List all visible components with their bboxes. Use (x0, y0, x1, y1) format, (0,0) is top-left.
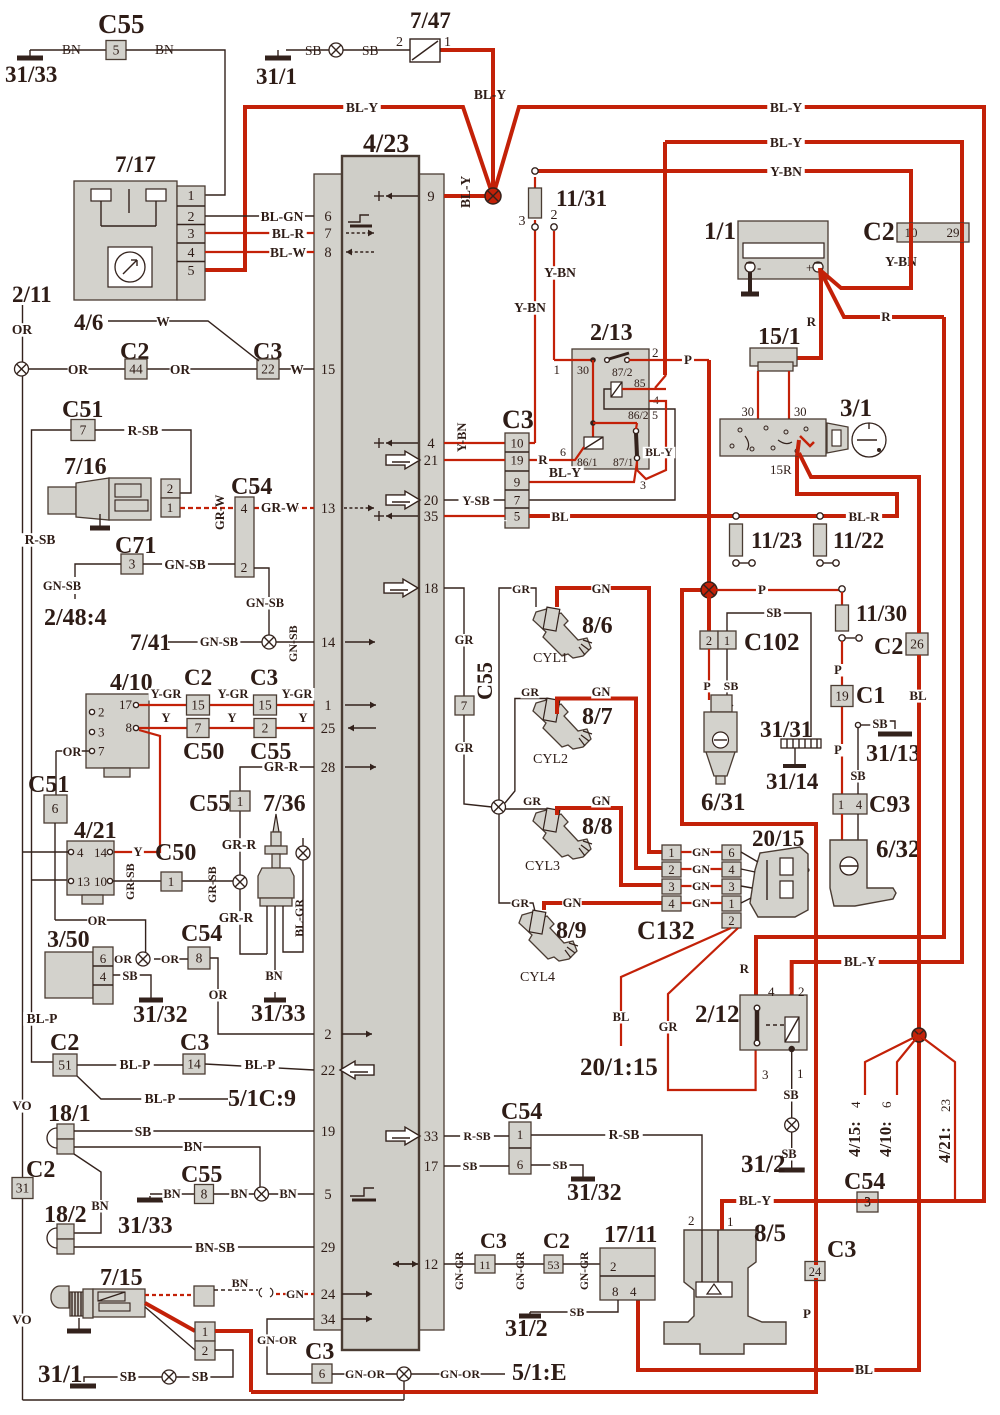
svg-text:86/2: 86/2 (628, 410, 649, 422)
svg-text:GN: GN (692, 879, 710, 893)
svg-text:C3: C3 (305, 1339, 334, 1365)
svg-text:8/8: 8/8 (582, 814, 613, 840)
svg-text:Y: Y (227, 711, 236, 725)
svg-text:GN: GN (592, 582, 611, 596)
svg-text:GN-OR: GN-OR (440, 1367, 480, 1381)
svg-text:C2: C2 (543, 1228, 570, 1253)
svg-text:4/10:: 4/10: (876, 1121, 895, 1157)
svg-text:23: 23 (938, 1099, 953, 1112)
svg-text:1: 1 (188, 189, 195, 204)
svg-text:3/50: 3/50 (47, 927, 90, 953)
svg-text:14: 14 (187, 1057, 201, 1072)
svg-text:BL: BL (855, 1362, 873, 1377)
svg-text:15/1: 15/1 (758, 324, 801, 350)
svg-text:2: 2 (688, 1213, 695, 1228)
svg-text:1: 1 (728, 897, 734, 911)
svg-text:1: 1 (797, 1066, 804, 1081)
svg-text:GN-OR: GN-OR (345, 1367, 385, 1381)
svg-text:SB: SB (192, 1369, 209, 1384)
svg-text:GR: GR (511, 896, 529, 910)
svg-text:GN-GR: GN-GR (579, 1251, 591, 1290)
svg-text:BN: BN (62, 42, 81, 57)
svg-text:SB: SB (463, 1159, 478, 1173)
svg-text:GN-GR: GN-GR (515, 1251, 527, 1290)
svg-text:R-SB: R-SB (463, 1129, 490, 1143)
svg-text:6: 6 (517, 1157, 524, 1172)
svg-text:Y-GR: Y-GR (282, 687, 314, 701)
svg-text:33: 33 (424, 1129, 439, 1145)
svg-text:BN: BN (91, 1199, 108, 1213)
svg-text:30: 30 (577, 363, 589, 377)
svg-text:15: 15 (321, 362, 336, 378)
svg-text:8/6: 8/6 (582, 613, 613, 639)
svg-text:GR-SB: GR-SB (123, 863, 137, 900)
svg-text:4: 4 (728, 863, 735, 877)
svg-text:2/12: 2/12 (695, 1001, 739, 1028)
svg-text:8/5: 8/5 (754, 1220, 786, 1247)
svg-text:22: 22 (261, 362, 275, 377)
svg-text:7/47: 7/47 (410, 8, 451, 33)
svg-text:1: 1 (838, 798, 844, 812)
svg-text:2: 2 (241, 560, 248, 575)
svg-text:11/30: 11/30 (856, 601, 907, 626)
svg-text:9: 9 (427, 189, 434, 205)
svg-text:C2: C2 (863, 217, 895, 246)
svg-text:1: 1 (724, 634, 730, 648)
svg-text:W: W (290, 362, 304, 377)
svg-text:W: W (156, 314, 170, 329)
svg-text:BL-GN: BL-GN (261, 209, 304, 224)
svg-text:19: 19 (321, 1124, 336, 1140)
svg-text:17: 17 (424, 1159, 439, 1175)
svg-text:SB: SB (362, 43, 379, 58)
svg-text:87/1: 87/1 (613, 457, 634, 469)
svg-text:GN-OR: GN-OR (257, 1333, 297, 1347)
svg-text:GN: GN (692, 896, 710, 910)
svg-text:CYL4: CYL4 (520, 970, 555, 985)
svg-text:2/13: 2/13 (590, 320, 633, 346)
svg-text:2/11: 2/11 (12, 282, 52, 307)
svg-text:BL-P: BL-P (120, 1057, 151, 1072)
svg-text:31/33: 31/33 (118, 1213, 173, 1239)
svg-text:8: 8 (126, 720, 133, 735)
svg-text:BL-Y: BL-Y (549, 465, 582, 480)
svg-text:1: 1 (727, 1214, 734, 1229)
svg-text:5: 5 (324, 1187, 331, 1203)
svg-text:34: 34 (321, 1312, 336, 1328)
svg-text:31/2: 31/2 (741, 1151, 785, 1178)
svg-text:BN: BN (163, 1187, 180, 1201)
svg-text:BN-SB: BN-SB (195, 1240, 235, 1255)
svg-text:31/31: 31/31 (760, 717, 812, 742)
svg-text:GN-SB: GN-SB (164, 557, 205, 572)
svg-text:1: 1 (168, 874, 175, 889)
svg-text:OR: OR (209, 988, 229, 1002)
svg-text:BL-R: BL-R (272, 226, 305, 241)
svg-text:C50: C50 (155, 840, 196, 866)
svg-text:GR-W: GR-W (261, 500, 300, 515)
svg-text:BL-Y: BL-Y (770, 135, 803, 150)
svg-text:8/7: 8/7 (582, 704, 613, 730)
svg-text:6: 6 (728, 846, 734, 860)
svg-text:6: 6 (52, 801, 59, 816)
svg-text:BN: BN (232, 1276, 249, 1290)
svg-text:BN: BN (230, 1187, 247, 1201)
svg-text:14: 14 (94, 845, 108, 860)
svg-text:GN: GN (592, 685, 611, 699)
svg-text:2: 2 (652, 345, 659, 360)
svg-text:C55: C55 (189, 791, 230, 817)
svg-text:C93: C93 (869, 792, 910, 818)
svg-text:C3: C3 (502, 405, 534, 434)
svg-text:CYL1: CYL1 (533, 651, 568, 666)
svg-text:4/6: 4/6 (74, 310, 103, 335)
svg-text:C1: C1 (856, 683, 885, 709)
svg-text:8: 8 (196, 951, 203, 966)
svg-text:6: 6 (324, 209, 331, 225)
svg-text:SB: SB (872, 717, 887, 731)
svg-text:2: 2 (668, 863, 674, 877)
svg-text:8: 8 (201, 1187, 208, 1202)
svg-text:12: 12 (424, 1257, 439, 1273)
svg-text:7: 7 (324, 226, 331, 242)
svg-text:BL-P: BL-P (245, 1057, 276, 1072)
svg-text:Y: Y (298, 711, 307, 725)
svg-text:BL: BL (551, 509, 569, 524)
svg-text:BL-Y: BL-Y (739, 1193, 772, 1208)
svg-text:6/31: 6/31 (701, 789, 745, 816)
svg-text:SB: SB (850, 769, 865, 783)
svg-text:9: 9 (514, 475, 521, 490)
svg-text:2: 2 (167, 481, 174, 496)
svg-text:C54: C54 (231, 474, 272, 500)
svg-text:10: 10 (94, 874, 107, 889)
svg-text:BL: BL (613, 1010, 630, 1024)
svg-text:5/1C:9: 5/1C:9 (228, 1086, 296, 1112)
svg-text:17: 17 (119, 697, 133, 712)
svg-text:SB: SB (724, 679, 739, 693)
svg-text:P: P (684, 352, 692, 367)
svg-text:GN-SB: GN-SB (246, 596, 284, 610)
svg-text:4: 4 (856, 798, 863, 812)
svg-text:C54: C54 (844, 1169, 885, 1195)
svg-text:SB: SB (553, 1158, 568, 1172)
svg-text:GR-R: GR-R (219, 910, 254, 925)
svg-text:4: 4 (188, 246, 195, 261)
svg-text:31: 31 (16, 1181, 30, 1196)
svg-text:C132: C132 (637, 916, 695, 945)
svg-text:7: 7 (514, 493, 521, 508)
svg-text:7: 7 (98, 744, 105, 759)
svg-text:P: P (758, 582, 766, 597)
svg-text:31/33: 31/33 (5, 62, 57, 87)
svg-text:53: 53 (548, 1258, 560, 1272)
svg-text:29: 29 (321, 1240, 336, 1256)
svg-text:C50: C50 (183, 739, 224, 765)
svg-text:18: 18 (424, 581, 439, 597)
svg-text:BL-GR: BL-GR (292, 899, 306, 937)
svg-text:4/21:: 4/21: (935, 1127, 954, 1163)
svg-text:C54: C54 (181, 921, 222, 947)
svg-text:29: 29 (947, 225, 960, 240)
svg-text:Y-GR: Y-GR (218, 687, 250, 701)
svg-text:Y-GR: Y-GR (151, 687, 183, 701)
svg-text:BL-P: BL-P (27, 1011, 58, 1026)
svg-text:15: 15 (258, 698, 272, 713)
svg-text:OR: OR (114, 952, 132, 966)
svg-text:13: 13 (321, 501, 336, 517)
svg-text:3: 3 (129, 557, 136, 572)
svg-text:4: 4 (100, 969, 107, 984)
svg-text:31/33: 31/33 (251, 1001, 306, 1027)
svg-text:1: 1 (167, 500, 174, 515)
svg-text:3: 3 (762, 1067, 769, 1082)
svg-text:C54: C54 (501, 1099, 542, 1125)
svg-text:1: 1 (668, 846, 674, 860)
svg-text:5: 5 (652, 408, 658, 422)
svg-text:4: 4 (630, 1284, 637, 1299)
svg-text:GN: GN (692, 845, 710, 859)
svg-text:5: 5 (113, 43, 120, 58)
svg-text:BL-P: BL-P (145, 1091, 176, 1106)
svg-text:SB: SB (120, 1369, 137, 1384)
svg-text:Y-BN: Y-BN (455, 423, 469, 452)
svg-text:4/10: 4/10 (110, 670, 153, 696)
svg-text:OR: OR (68, 362, 89, 377)
svg-text:7/36: 7/36 (263, 791, 306, 817)
svg-text:GN: GN (592, 794, 611, 808)
svg-text:2/48:4: 2/48:4 (44, 605, 107, 631)
svg-text:2: 2 (188, 210, 195, 225)
svg-text:1: 1 (202, 1324, 209, 1339)
svg-text:31/1: 31/1 (256, 64, 297, 89)
svg-text:R-SB: R-SB (128, 423, 159, 438)
svg-text:-: - (757, 260, 761, 275)
svg-text:P: P (703, 679, 710, 693)
svg-text:GR: GR (455, 633, 475, 647)
svg-text:Y-SB: Y-SB (462, 494, 489, 508)
svg-text:OR: OR (63, 745, 83, 759)
svg-text:Y-BN: Y-BN (514, 300, 546, 315)
svg-text:31/2: 31/2 (505, 1316, 548, 1342)
svg-text:GR-R: GR-R (264, 759, 299, 774)
svg-text:1: 1 (517, 1127, 524, 1142)
svg-text:GN-SB: GN-SB (200, 635, 238, 649)
svg-text:3: 3 (864, 1194, 871, 1209)
svg-text:R: R (538, 452, 548, 467)
svg-text:SB: SB (122, 969, 137, 983)
svg-text:31/13: 31/13 (866, 741, 921, 767)
svg-text:4: 4 (848, 1101, 863, 1108)
svg-text:11/22: 11/22 (833, 528, 884, 553)
svg-text:4/15:: 4/15: (845, 1121, 864, 1157)
svg-text:6: 6 (879, 1101, 894, 1108)
svg-text:7/17: 7/17 (115, 152, 156, 177)
svg-text:GR: GR (521, 685, 539, 699)
svg-text:C55: C55 (98, 9, 145, 39)
svg-text:2: 2 (396, 35, 403, 50)
svg-text:C3: C3 (250, 665, 278, 690)
svg-text:11/23: 11/23 (751, 528, 802, 553)
svg-text:4/23: 4/23 (363, 129, 409, 158)
svg-text:7/16: 7/16 (64, 454, 107, 480)
svg-text:BL-Y: BL-Y (458, 175, 473, 208)
svg-text:C102: C102 (744, 629, 800, 656)
svg-text:6: 6 (319, 1366, 326, 1381)
svg-text:20/15: 20/15 (752, 826, 804, 851)
svg-text:BL-R: BL-R (848, 509, 880, 524)
svg-text:BN: BN (279, 1187, 296, 1201)
svg-text:8: 8 (612, 1284, 619, 1299)
svg-text:CYL2: CYL2 (533, 752, 568, 767)
svg-text:6: 6 (100, 951, 107, 966)
svg-text:2: 2 (324, 1027, 331, 1043)
svg-text:3: 3 (519, 214, 526, 229)
svg-text:OR: OR (170, 362, 191, 377)
svg-text:3: 3 (640, 478, 646, 492)
svg-text:24: 24 (321, 1287, 336, 1303)
svg-text:GN: GN (286, 1287, 304, 1301)
svg-text:11/31: 11/31 (556, 186, 607, 211)
svg-text:30: 30 (742, 405, 755, 419)
svg-text:C3: C3 (827, 1237, 856, 1263)
svg-text:1: 1 (324, 698, 331, 714)
svg-text:P: P (834, 743, 842, 757)
svg-text:5: 5 (188, 264, 195, 279)
svg-text:7/15: 7/15 (100, 1265, 143, 1291)
svg-text:7/41: 7/41 (130, 630, 171, 655)
svg-text:15: 15 (191, 698, 205, 713)
svg-text:BL: BL (909, 688, 927, 703)
svg-text:BL-Y: BL-Y (474, 87, 507, 102)
svg-text:22: 22 (321, 1063, 336, 1079)
svg-text:26: 26 (910, 637, 924, 652)
svg-text:4: 4 (77, 845, 84, 860)
svg-text:GR-R: GR-R (222, 837, 257, 852)
svg-text:4: 4 (768, 984, 775, 999)
svg-text:Y-BN: Y-BN (544, 265, 576, 280)
svg-text:2: 2 (706, 634, 712, 648)
svg-text:8: 8 (324, 245, 331, 261)
svg-text:GR: GR (659, 1020, 679, 1034)
svg-text:2: 2 (202, 1343, 209, 1358)
svg-text:GR: GR (523, 794, 541, 808)
svg-text:GR-SB: GR-SB (205, 866, 219, 903)
svg-text:15R: 15R (770, 462, 792, 477)
svg-text:5: 5 (514, 509, 521, 524)
svg-text:SB: SB (305, 43, 322, 58)
svg-text:3: 3 (98, 725, 105, 740)
svg-text:2: 2 (610, 1259, 617, 1274)
svg-text:SB: SB (783, 1088, 798, 1102)
svg-text:6/32: 6/32 (876, 836, 920, 863)
svg-text:GN-SB: GN-SB (43, 579, 81, 593)
svg-text:8/9: 8/9 (556, 918, 587, 944)
svg-text:BL-W: BL-W (270, 245, 307, 260)
svg-text:Y: Y (133, 845, 142, 859)
svg-text:SB: SB (135, 1124, 152, 1139)
svg-text:19: 19 (835, 689, 849, 704)
svg-text:2: 2 (262, 721, 269, 736)
svg-text:85: 85 (634, 378, 646, 390)
svg-text:GR: GR (455, 741, 475, 755)
svg-text:OR: OR (161, 952, 179, 966)
svg-text:R-SB: R-SB (609, 1127, 640, 1142)
svg-text:31/14: 31/14 (766, 769, 819, 794)
svg-text:1/1: 1/1 (704, 218, 736, 245)
svg-text:2: 2 (798, 984, 805, 999)
svg-text:GR: GR (512, 582, 530, 596)
svg-text:14: 14 (321, 635, 336, 651)
svg-text:BL-Y: BL-Y (645, 447, 673, 459)
svg-text:C2: C2 (50, 1030, 79, 1056)
svg-text:4/21: 4/21 (74, 818, 117, 844)
svg-text:18/1: 18/1 (48, 1101, 91, 1127)
svg-text:Y-BN: Y-BN (770, 164, 802, 179)
svg-text:R-SB: R-SB (25, 532, 56, 547)
svg-text:4: 4 (241, 501, 248, 516)
svg-text:OR: OR (12, 322, 33, 337)
svg-text:+: + (806, 260, 813, 275)
svg-text:P: P (834, 663, 842, 677)
svg-text:44: 44 (129, 362, 143, 377)
svg-text:3: 3 (188, 227, 195, 242)
svg-text:BL-Y: BL-Y (844, 954, 877, 969)
svg-text:GN: GN (692, 862, 710, 876)
svg-text:87/2: 87/2 (612, 367, 633, 379)
svg-text:GR-W: GR-W (213, 494, 227, 530)
svg-text:VO: VO (12, 1312, 31, 1327)
svg-text:CYL3: CYL3 (525, 859, 560, 874)
svg-text:C51: C51 (28, 772, 69, 798)
svg-text:GN: GN (563, 896, 582, 910)
svg-text:24: 24 (809, 1265, 822, 1279)
svg-text:20: 20 (424, 493, 439, 509)
svg-text:20/1:15: 20/1:15 (580, 1054, 658, 1081)
svg-text:31/32: 31/32 (133, 1002, 188, 1028)
svg-text:11: 11 (479, 1258, 491, 1272)
svg-text:25: 25 (321, 721, 336, 737)
svg-text:SB: SB (570, 1305, 585, 1319)
svg-text:30: 30 (794, 405, 807, 419)
svg-text:5/1:E: 5/1:E (512, 1360, 567, 1386)
svg-text:21: 21 (424, 453, 439, 469)
svg-text:2: 2 (728, 914, 734, 928)
svg-text:13: 13 (77, 874, 90, 889)
svg-text:Y: Y (161, 711, 170, 725)
svg-text:31/32: 31/32 (567, 1180, 622, 1206)
svg-text:3: 3 (728, 880, 734, 894)
svg-text:R: R (740, 961, 750, 976)
svg-text:C55: C55 (472, 662, 497, 700)
svg-text:28: 28 (321, 760, 336, 776)
svg-text:R: R (807, 314, 817, 329)
svg-text:SB: SB (766, 606, 781, 620)
svg-text:VO: VO (12, 1098, 31, 1113)
svg-text:P: P (803, 1306, 811, 1321)
svg-text:1: 1 (444, 35, 451, 50)
svg-text:BN: BN (184, 1139, 203, 1154)
svg-text:1: 1 (554, 362, 561, 377)
svg-text:19: 19 (511, 453, 524, 468)
svg-text:7: 7 (80, 423, 87, 438)
svg-text:OR: OR (88, 914, 108, 928)
svg-text:4: 4 (668, 897, 675, 911)
svg-text:7: 7 (195, 721, 202, 736)
svg-text:10: 10 (511, 436, 524, 451)
svg-text:BL-Y: BL-Y (770, 100, 803, 115)
svg-text:C3: C3 (180, 1030, 209, 1056)
